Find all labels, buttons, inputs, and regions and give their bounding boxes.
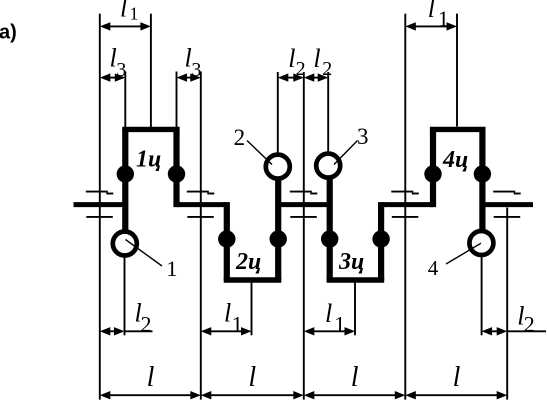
dimension l2 middle right label xyxy=(313,44,332,80)
svg-text:2: 2 xyxy=(141,312,152,337)
crank 2 right web extending to counterweight 2 xyxy=(275,180,281,280)
svg-text:3: 3 xyxy=(191,59,201,81)
dimension l1 top left label xyxy=(120,0,139,24)
crank 3 left web journal dot xyxy=(321,230,338,247)
svg-text:2: 2 xyxy=(322,58,332,80)
main shaft segment between crank 1 and crank 2 xyxy=(177,202,227,207)
extension line bearing 3 centerline xyxy=(303,72,305,400)
leader line to counterweight 3 xyxy=(334,141,358,165)
svg-text:l: l xyxy=(351,362,359,393)
extension line counterweight 2 top xyxy=(277,72,279,153)
counterweight circle 1 xyxy=(113,232,137,256)
extension line crank 1 left web top xyxy=(124,72,126,128)
crank 4 left web journal dot xyxy=(424,165,441,182)
main bearing 3 support marks xyxy=(290,192,318,217)
svg-text:2: 2 xyxy=(296,58,306,80)
svg-text:а): а) xyxy=(0,21,17,43)
crank 3 pin (bottom) xyxy=(327,277,385,282)
crank 1 right web journal dot xyxy=(168,165,185,182)
crank 1 pin (top) xyxy=(122,127,179,132)
crank 2 pin (bottom) xyxy=(224,277,282,282)
extension line counterweight 4 bottom xyxy=(481,257,483,336)
svg-text:l: l xyxy=(147,362,155,393)
crank 1 right web xyxy=(173,129,179,207)
svg-text:1: 1 xyxy=(334,311,345,336)
extension line crank 1 right web top xyxy=(176,72,178,128)
dimension l span 3 arrow xyxy=(304,391,406,399)
svg-text:3: 3 xyxy=(357,124,369,149)
svg-text:3ц: 3ц xyxy=(338,249,364,275)
dimension l2 bottom left label xyxy=(135,298,152,336)
dimension l3 right label xyxy=(185,44,202,82)
svg-text:l: l xyxy=(248,362,256,393)
svg-text:1: 1 xyxy=(166,256,177,281)
extension line crank 3 pin center xyxy=(354,282,356,336)
dimension l2 bottom right label xyxy=(517,302,535,337)
main bearing 1 support marks xyxy=(86,192,114,217)
crank 1 left web journal dot xyxy=(117,165,134,182)
dimension l1 bottom left arrow xyxy=(201,327,252,335)
extension line counterweight 3 top xyxy=(327,72,329,152)
svg-text:2: 2 xyxy=(524,312,535,337)
dimension l3 right arrow xyxy=(177,73,201,81)
dimension l3 left arrow xyxy=(100,73,126,81)
dimension l1 bottom left label xyxy=(224,298,243,336)
main shaft segment right end xyxy=(482,202,533,207)
dimension l1 top right arrow xyxy=(405,22,457,30)
extension line crank 2 pin center xyxy=(251,282,253,336)
dimension l span 1 arrow xyxy=(100,391,201,399)
dimension l2 middle left arrow xyxy=(278,73,304,81)
extension line crank 1 pin center xyxy=(150,14,152,128)
crank 2 left web xyxy=(224,202,230,280)
counterweight circle 3 xyxy=(316,154,340,178)
crank 3 left web extending to counterweight 3 xyxy=(327,179,333,280)
main shaft segment left end xyxy=(74,202,126,207)
main bearing 5 support marks xyxy=(493,192,521,217)
svg-text:4ц: 4ц xyxy=(442,147,468,173)
svg-text:1ц: 1ц xyxy=(136,147,161,173)
dimension l1 top left arrow xyxy=(100,22,151,30)
crank 1 left web extending to counterweight 1 xyxy=(122,129,128,230)
dimension l2 middle left label xyxy=(288,44,305,80)
crank 2 right web journal dot xyxy=(270,230,287,247)
extension line bearing 4 centerline xyxy=(404,14,406,400)
dimension l span 4 arrow xyxy=(405,391,507,399)
main bearing 2 support marks xyxy=(187,192,215,217)
crank 4 pin (top) xyxy=(430,127,486,132)
crank 3 right web journal dot xyxy=(372,230,389,247)
svg-text:l: l xyxy=(120,0,127,23)
svg-text:2ц: 2ц xyxy=(235,249,261,275)
svg-text:4: 4 xyxy=(428,256,439,280)
counterweight circle 2 xyxy=(266,155,290,179)
dimension l3 left label xyxy=(110,44,127,82)
leader line to counterweight 2 xyxy=(247,141,272,165)
extension line bearing 1 centerline xyxy=(99,14,101,400)
svg-text:l: l xyxy=(325,299,332,328)
main shaft segment between crank 2 and crank 3 xyxy=(278,202,330,207)
svg-text:3: 3 xyxy=(116,59,126,81)
dimension l1 bottom right arrow xyxy=(304,327,355,335)
dimension l2 middle right arrow xyxy=(304,73,328,81)
svg-text:2: 2 xyxy=(234,125,246,150)
svg-text:l: l xyxy=(428,0,435,23)
leader line to counterweight 4 xyxy=(446,243,481,264)
dimension l1 top right label xyxy=(428,0,449,31)
dimension l span 2 arrow xyxy=(201,391,304,399)
crank 4 right web journal dot xyxy=(474,165,491,182)
extension line bearing 5 centerline xyxy=(506,208,508,400)
main shaft segment between crank 3 and crank 4 xyxy=(381,202,433,207)
svg-text:1: 1 xyxy=(438,6,449,31)
svg-text:l: l xyxy=(288,44,295,73)
svg-text:1: 1 xyxy=(232,311,243,336)
crank 2 left web journal dot xyxy=(218,230,235,247)
svg-text:l: l xyxy=(224,298,231,327)
leader line to counterweight 1 xyxy=(126,240,163,267)
extension line counterweight 1 bottom xyxy=(124,257,126,335)
crank 4 left web xyxy=(430,129,436,207)
dimension l2 bottom left arrow xyxy=(100,327,153,335)
svg-text:1: 1 xyxy=(130,4,139,24)
svg-text:l: l xyxy=(313,44,320,73)
crank 4 right web extending to counterweight 4 xyxy=(479,129,485,229)
counterweight circle 4 xyxy=(469,231,493,255)
dimension l2 bottom right arrow xyxy=(482,327,546,335)
dimension l1 bottom right label xyxy=(325,299,345,336)
crank 3 right web xyxy=(378,202,384,280)
svg-text:l: l xyxy=(453,362,461,393)
main bearing 4 support marks xyxy=(391,192,419,217)
extension line bearing 2 centerline xyxy=(200,72,202,400)
extension line crank 4 pin center xyxy=(456,14,458,127)
